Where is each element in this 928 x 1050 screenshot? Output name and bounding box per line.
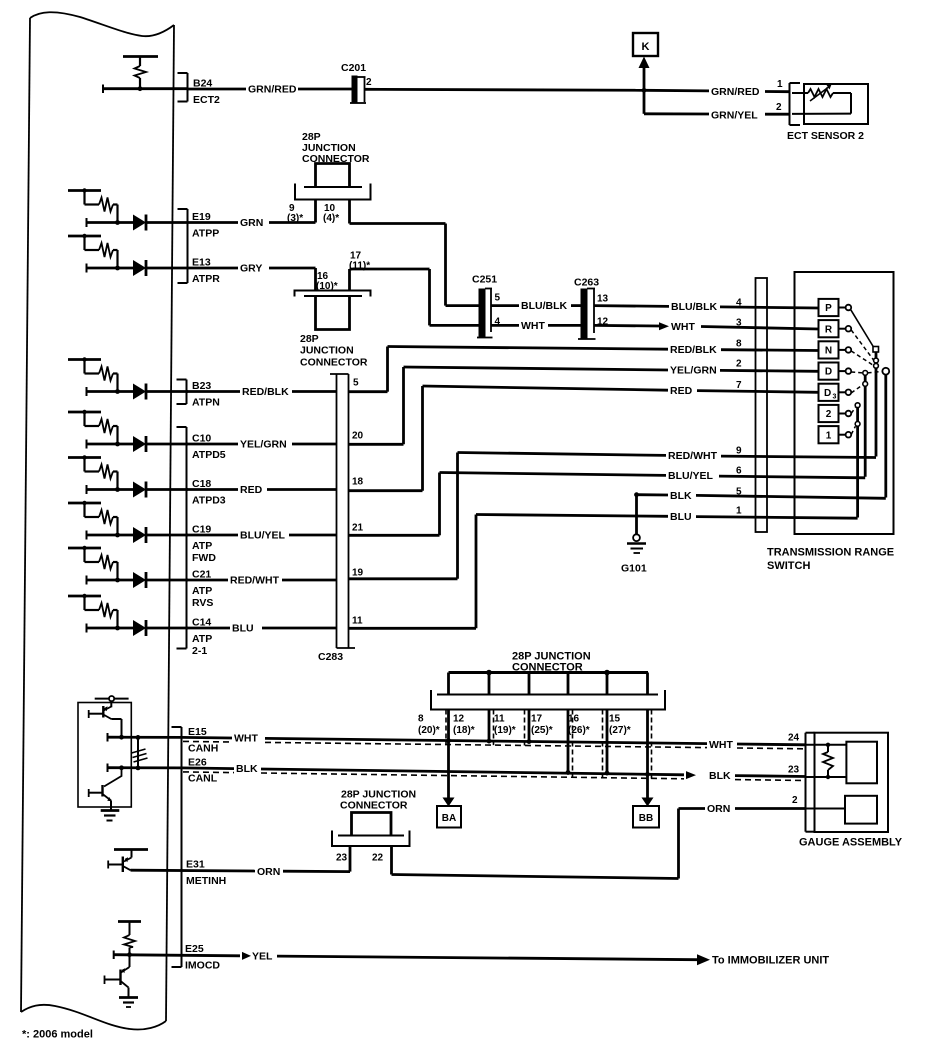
wire BLU/YEL to TRS pin6 bbox=[440, 473, 667, 476]
28P junction connector D symbol bbox=[332, 813, 410, 875]
svg-text:BLK: BLK bbox=[670, 490, 692, 502]
wire RED C18 bbox=[187, 488, 239, 491]
terminal E13 ATPR bbox=[192, 257, 220, 285]
svg-text:R: R bbox=[825, 324, 833, 335]
wire junction A pin10 to C251 bbox=[350, 222, 446, 225]
svg-text:BLU/YEL: BLU/YEL bbox=[240, 530, 286, 542]
terminal E19 ATPP bbox=[192, 211, 219, 239]
svg-text:24: 24 bbox=[788, 733, 800, 744]
svg-text:E31: E31 bbox=[186, 859, 205, 871]
connector C263 bbox=[574, 277, 609, 340]
svg-text:8: 8 bbox=[736, 339, 742, 350]
wire C18 internal bbox=[87, 488, 134, 491]
svg-text:FWD: FWD bbox=[192, 552, 216, 564]
svg-text:2: 2 bbox=[366, 77, 372, 88]
svg-text:E26: E26 bbox=[188, 756, 207, 768]
svg-text:1: 1 bbox=[826, 430, 832, 441]
gauge inner box 2 bbox=[845, 796, 877, 824]
diode C14 row bbox=[133, 620, 146, 636]
junction A pin numbers bbox=[287, 203, 339, 224]
svg-text:BLK: BLK bbox=[236, 763, 258, 775]
diode C21 row bbox=[133, 572, 146, 588]
svg-text:BLK: BLK bbox=[709, 770, 731, 782]
connector BA box bbox=[437, 806, 461, 828]
svg-text:TRANSMISSION RANGE: TRANSMISSION RANGE bbox=[767, 547, 894, 559]
wire YEL bbox=[113, 951, 115, 960]
transistor Q2 CANL driver bbox=[89, 768, 122, 811]
svg-text:IMOCD: IMOCD bbox=[185, 960, 220, 972]
arrow WHT bbox=[659, 322, 669, 330]
svg-text:RED/BLK: RED/BLK bbox=[242, 386, 289, 398]
wire C21 internal bbox=[87, 579, 134, 582]
svg-text:YEL/GRN: YEL/GRN bbox=[670, 365, 717, 377]
svg-text:15: 15 bbox=[609, 714, 621, 725]
wire GRN/RED right segment bbox=[644, 89, 709, 92]
diode B23 row bbox=[133, 384, 146, 400]
transistor IMOCD driver bbox=[105, 955, 130, 998]
28P junction connector C symbol bbox=[431, 670, 665, 710]
resistor network E13 row bbox=[68, 234, 120, 273]
svg-text:2: 2 bbox=[826, 409, 832, 420]
svg-text:CONNECTOR: CONNECTOR bbox=[300, 357, 368, 369]
wire ORN right bbox=[392, 875, 679, 879]
resistor network C19 row bbox=[68, 501, 120, 540]
wire B23 internal bbox=[87, 390, 134, 393]
wire E13 internal bbox=[87, 267, 134, 270]
wire ORN into gauge bbox=[806, 808, 846, 810]
svg-text:To IMMOBILIZER UNIT: To IMMOBILIZER UNIT bbox=[712, 954, 829, 966]
node CANH junctions bbox=[119, 735, 124, 740]
svg-text:9: 9 bbox=[736, 446, 742, 457]
transistor METINH driver bbox=[108, 850, 148, 873]
switch position 2 bbox=[819, 405, 852, 422]
28P junction connector B symbol bbox=[295, 268, 371, 330]
28P junction connector D label bbox=[340, 789, 416, 812]
resistor network C18 row bbox=[68, 455, 120, 494]
svg-text:16: 16 bbox=[568, 714, 580, 725]
svg-text:ECT SENSOR 2: ECT SENSOR 2 bbox=[787, 130, 864, 142]
switch linkage dashed lines bbox=[851, 330, 882, 435]
zener stack IMOCD driver bbox=[118, 922, 141, 958]
svg-text:20: 20 bbox=[352, 431, 364, 442]
connector bracket gauge bbox=[806, 733, 815, 832]
svg-text:METINH: METINH bbox=[186, 875, 226, 887]
wire C283 pin18 elbow bbox=[349, 489, 423, 492]
wire to BA with arrow bbox=[447, 710, 450, 798]
terminal E25 IMOCD bbox=[185, 943, 220, 971]
transistor Q1 CANH driver bbox=[89, 706, 122, 737]
wire BLK to TRS pin5 bbox=[637, 493, 669, 496]
svg-text:12: 12 bbox=[453, 714, 465, 725]
svg-text:ATPP: ATPP bbox=[192, 227, 219, 239]
wire GRN/RED middle bbox=[365, 89, 645, 90]
svg-text:ATPD3: ATPD3 bbox=[192, 494, 226, 506]
wire BLU/YEL C19 bbox=[187, 534, 239, 537]
svg-text:ATP: ATP bbox=[192, 540, 212, 552]
svg-text:4: 4 bbox=[736, 298, 742, 309]
svg-text:P: P bbox=[825, 303, 832, 314]
ground CAN block bbox=[101, 811, 120, 821]
svg-text:(19)*: (19)* bbox=[494, 725, 516, 736]
connector bracket B24 bbox=[178, 73, 188, 102]
wire BLU C14 bbox=[187, 627, 231, 630]
svg-text:(25)*: (25)* bbox=[531, 725, 553, 736]
svg-text:YEL/GRN: YEL/GRN bbox=[240, 439, 287, 451]
svg-text:7: 7 bbox=[736, 380, 742, 391]
svg-text:ATPD5: ATPD5 bbox=[192, 449, 226, 461]
svg-text:2: 2 bbox=[776, 102, 782, 113]
svg-text:BA: BA bbox=[442, 813, 456, 824]
svg-text:GRN/RED: GRN/RED bbox=[711, 86, 760, 98]
PCM band torn outline bbox=[21, 12, 174, 1029]
wire to K arrow bbox=[643, 67, 646, 90]
svg-text:1: 1 bbox=[777, 79, 783, 90]
svg-text:3: 3 bbox=[833, 394, 837, 401]
svg-text:22: 22 bbox=[372, 853, 384, 864]
wire C19 internal bbox=[87, 534, 134, 537]
wire BLU/BLK to TRS pin4 bbox=[594, 304, 669, 308]
svg-text:11: 11 bbox=[352, 616, 363, 627]
switch position P bbox=[819, 299, 852, 316]
wire B24 internal bbox=[103, 87, 187, 90]
svg-text:RED/BLK: RED/BLK bbox=[670, 344, 717, 356]
junction D pin numbers bbox=[336, 853, 384, 864]
terminal E31 METINH bbox=[186, 859, 226, 887]
svg-text:*: 2006 model: *: 2006 model bbox=[22, 1029, 93, 1041]
svg-text:19: 19 bbox=[352, 568, 364, 579]
svg-text:JUNCTION: JUNCTION bbox=[300, 345, 354, 357]
svg-text:WHT: WHT bbox=[521, 320, 545, 332]
capacitor C201 bbox=[341, 62, 372, 103]
svg-text:ATP: ATP bbox=[192, 585, 212, 597]
wire E19 internal bbox=[87, 221, 134, 224]
svg-text:YEL: YEL bbox=[252, 951, 273, 963]
arrow To IMMOBILIZER UNIT bbox=[697, 954, 710, 965]
svg-text:RED: RED bbox=[670, 385, 693, 397]
GAUGE ASSEMBLY box bbox=[815, 733, 889, 832]
zener pair between CANH and CANL bbox=[132, 737, 148, 768]
svg-text:BLU/BLK: BLU/BLK bbox=[671, 301, 717, 313]
TRS pin numbers left bbox=[736, 298, 742, 517]
wire BLU/BLK C251-C263 bbox=[491, 304, 519, 307]
resistor network C14 row bbox=[68, 594, 120, 633]
svg-text:5: 5 bbox=[736, 487, 742, 498]
svg-text:BB: BB bbox=[639, 813, 653, 824]
terminal C10 ATPD5 bbox=[192, 433, 226, 461]
wire GRN/RED left segment bbox=[188, 88, 247, 91]
svg-text:K: K bbox=[642, 41, 650, 53]
svg-text:(26)*: (26)* bbox=[568, 725, 590, 736]
wire GRN/YEL bbox=[643, 90, 646, 114]
diode C18 row bbox=[133, 482, 146, 498]
svg-text:BLU/YEL: BLU/YEL bbox=[668, 470, 714, 482]
junction C pin numbers bbox=[418, 714, 631, 737]
connector C251 bbox=[472, 274, 501, 338]
wire C10 internal bbox=[87, 443, 134, 446]
svg-text:21: 21 bbox=[352, 523, 364, 534]
svg-text:RED/WHT: RED/WHT bbox=[230, 575, 280, 587]
arrow YEL bbox=[242, 952, 251, 960]
gauge inner box 1 bbox=[846, 742, 877, 784]
svg-text:WHT: WHT bbox=[234, 733, 258, 745]
switch position R bbox=[819, 320, 852, 337]
node K junction bbox=[642, 88, 647, 93]
terminal C14 ATP 2-1 bbox=[192, 617, 212, 657]
terminal B24 ECT2 bbox=[193, 78, 220, 106]
svg-text:D: D bbox=[825, 367, 832, 378]
wire RED/BLK B23 bbox=[187, 390, 241, 393]
wire RED to TRS pin7 bbox=[423, 386, 669, 390]
svg-text:BLU: BLU bbox=[232, 623, 254, 635]
svg-text:3: 3 bbox=[736, 318, 742, 329]
connector bracket ECT sensor bbox=[790, 83, 801, 125]
wire GRY bbox=[188, 267, 239, 270]
svg-text:E25: E25 bbox=[185, 943, 204, 955]
arrow BLK gauge bbox=[686, 771, 696, 779]
svg-text:GRY: GRY bbox=[240, 263, 262, 275]
junction B pin numbers bbox=[316, 251, 370, 293]
terminal C18 ATPD3 bbox=[192, 478, 226, 506]
svg-text:ATP: ATP bbox=[192, 633, 212, 645]
svg-text:ATPR: ATPR bbox=[192, 273, 220, 285]
svg-text:RED: RED bbox=[240, 484, 263, 496]
ECT SENSOR 2 box with thermistor bbox=[792, 84, 868, 124]
svg-text:23: 23 bbox=[788, 765, 800, 776]
wire C14 internal bbox=[87, 627, 134, 630]
terminal E26 CANL bbox=[188, 756, 218, 784]
TRANSMISSION RANGE SWITCH box bbox=[795, 272, 894, 534]
switch position 1 bbox=[819, 426, 852, 443]
wire WHT to TRS pin3 bbox=[594, 324, 659, 327]
switch position D bbox=[819, 363, 852, 380]
wire WHT CANH bus bbox=[182, 736, 233, 739]
wire CANH internal bbox=[107, 733, 109, 742]
svg-text:GRN: GRN bbox=[240, 217, 263, 229]
svg-text:BLU/BLK: BLU/BLK bbox=[521, 300, 567, 312]
svg-text:6: 6 bbox=[736, 466, 742, 477]
terminal B23 ATPN bbox=[192, 380, 220, 408]
diode E13 row bbox=[133, 260, 146, 276]
CAN transceiver box bbox=[78, 703, 131, 808]
28P junction connector B label bbox=[300, 333, 368, 369]
svg-text:G101: G101 bbox=[621, 563, 647, 575]
junction C legs to CAN bus bbox=[446, 710, 652, 780]
28P junction connector A symbol bbox=[295, 164, 371, 224]
terminal E15 CANH bbox=[188, 726, 218, 754]
svg-text:GRN/RED: GRN/RED bbox=[248, 84, 297, 96]
wire WHT CANH dashed pair bbox=[183, 740, 232, 743]
diode E19 row bbox=[133, 215, 146, 231]
svg-text:5: 5 bbox=[495, 293, 501, 304]
wire RED/WHT to TRS pin9 bbox=[458, 453, 667, 456]
svg-text:BLU: BLU bbox=[670, 511, 692, 523]
wire C283 pin20 elbow bbox=[349, 443, 404, 446]
switch common contacts bbox=[851, 310, 889, 518]
ground IMOCD bbox=[119, 998, 138, 1008]
ground G101 bbox=[621, 492, 647, 574]
connector bracket E15-E25 bbox=[172, 727, 182, 967]
svg-text:RED/WHT: RED/WHT bbox=[668, 450, 718, 462]
svg-text:ATPN: ATPN bbox=[192, 396, 220, 408]
wire C283 pin5 elbow bbox=[349, 390, 388, 393]
svg-text:17: 17 bbox=[531, 714, 543, 725]
gauge internal resistor bbox=[806, 743, 847, 780]
C283 pin numbers bbox=[352, 378, 364, 627]
terminal C21 ATP RVS bbox=[192, 569, 213, 609]
svg-text:(10)*: (10)* bbox=[316, 281, 338, 292]
resistor network B23 row bbox=[68, 357, 120, 396]
svg-text:C251: C251 bbox=[472, 274, 497, 286]
svg-text:(27)*: (27)* bbox=[609, 725, 631, 736]
svg-text:CANL: CANL bbox=[188, 773, 218, 785]
wire C283 pin19 elbow bbox=[349, 577, 458, 580]
svg-text:D: D bbox=[824, 388, 831, 399]
wire junction B pin17 to C251 bbox=[350, 268, 430, 271]
capacitor/zener network at ECT2 driver bbox=[103, 57, 158, 94]
wire RED/BLK to TRS pin8 bbox=[388, 347, 669, 350]
svg-text:C201: C201 bbox=[341, 62, 366, 74]
svg-text:N: N bbox=[825, 346, 832, 357]
wire BLU to TRS pin1 bbox=[476, 515, 668, 517]
switch position N bbox=[819, 341, 852, 358]
terminal C19 ATP FWD bbox=[192, 524, 216, 564]
svg-text:GRN/YEL: GRN/YEL bbox=[711, 109, 758, 121]
diode C10 row bbox=[133, 436, 146, 452]
svg-text:18: 18 bbox=[352, 477, 364, 488]
svg-text:C263: C263 bbox=[574, 277, 599, 289]
wire to BB with arrow bbox=[646, 710, 649, 798]
wire CANL internal bbox=[107, 764, 109, 773]
svg-text:(18)*: (18)* bbox=[453, 725, 475, 736]
svg-text:CONNECTOR: CONNECTOR bbox=[340, 800, 408, 812]
connector K box bbox=[633, 33, 658, 56]
resistor network C21 row bbox=[68, 546, 120, 585]
svg-text:23: 23 bbox=[336, 853, 348, 864]
wire BLK CANL bus bbox=[182, 767, 235, 770]
svg-text:2-1: 2-1 bbox=[192, 645, 207, 657]
wire BLK CANL dashed pair bbox=[183, 771, 234, 774]
svg-text:ECT2: ECT2 bbox=[193, 94, 220, 106]
svg-text:C283: C283 bbox=[318, 651, 343, 663]
svg-text:WHT: WHT bbox=[709, 739, 733, 751]
svg-text:13: 13 bbox=[597, 294, 609, 305]
wire WHT C251-C263 bbox=[491, 324, 519, 327]
connector bracket B23 bbox=[177, 380, 187, 405]
28P junction connector C label bbox=[512, 651, 591, 674]
svg-text:WHT: WHT bbox=[671, 321, 695, 333]
connector C283 bbox=[318, 374, 355, 663]
svg-text:1: 1 bbox=[736, 506, 742, 517]
wire C283 pin11 elbow bbox=[349, 627, 477, 630]
svg-text:(20)*: (20)* bbox=[418, 725, 440, 736]
connector bracket E19/E13 bbox=[178, 209, 188, 283]
wire YEL/GRN to TRS pin2 bbox=[404, 367, 669, 370]
wire C283 pin21 elbow bbox=[349, 534, 440, 537]
svg-text:28P: 28P bbox=[300, 333, 319, 345]
svg-text:2: 2 bbox=[792, 795, 798, 806]
28P junction connector A label bbox=[302, 131, 370, 165]
connector bracket C10-C14 bbox=[177, 427, 187, 649]
connector TRS double line bbox=[756, 278, 768, 532]
svg-text:5: 5 bbox=[353, 378, 359, 389]
svg-text:2: 2 bbox=[736, 359, 742, 370]
svg-text:ORN: ORN bbox=[707, 803, 730, 815]
resistor network C10 row bbox=[68, 410, 120, 449]
svg-text:RVS: RVS bbox=[192, 597, 213, 609]
diode C19 row bbox=[133, 527, 146, 543]
wire YEL/GRN C10 bbox=[187, 443, 239, 446]
connector BB box bbox=[633, 806, 659, 828]
label TRANSMISSION RANGE SWITCH bbox=[767, 547, 894, 573]
svg-text:11: 11 bbox=[494, 714, 505, 725]
wire RED/WHT C21 bbox=[187, 579, 229, 582]
svg-text:8: 8 bbox=[418, 714, 424, 725]
wire GRN bbox=[188, 221, 239, 224]
switch position D3 bbox=[819, 384, 852, 401]
svg-text:(4)*: (4)* bbox=[323, 213, 339, 224]
svg-text:CANH: CANH bbox=[188, 742, 218, 754]
wire ORN left bbox=[131, 869, 256, 873]
svg-text:ORN: ORN bbox=[257, 866, 280, 878]
resistor network E19 row bbox=[68, 188, 120, 227]
svg-text:SWITCH: SWITCH bbox=[767, 560, 810, 572]
supply terminal circle bbox=[95, 696, 129, 707]
svg-text:GAUGE ASSEMBLY: GAUGE ASSEMBLY bbox=[799, 837, 903, 849]
